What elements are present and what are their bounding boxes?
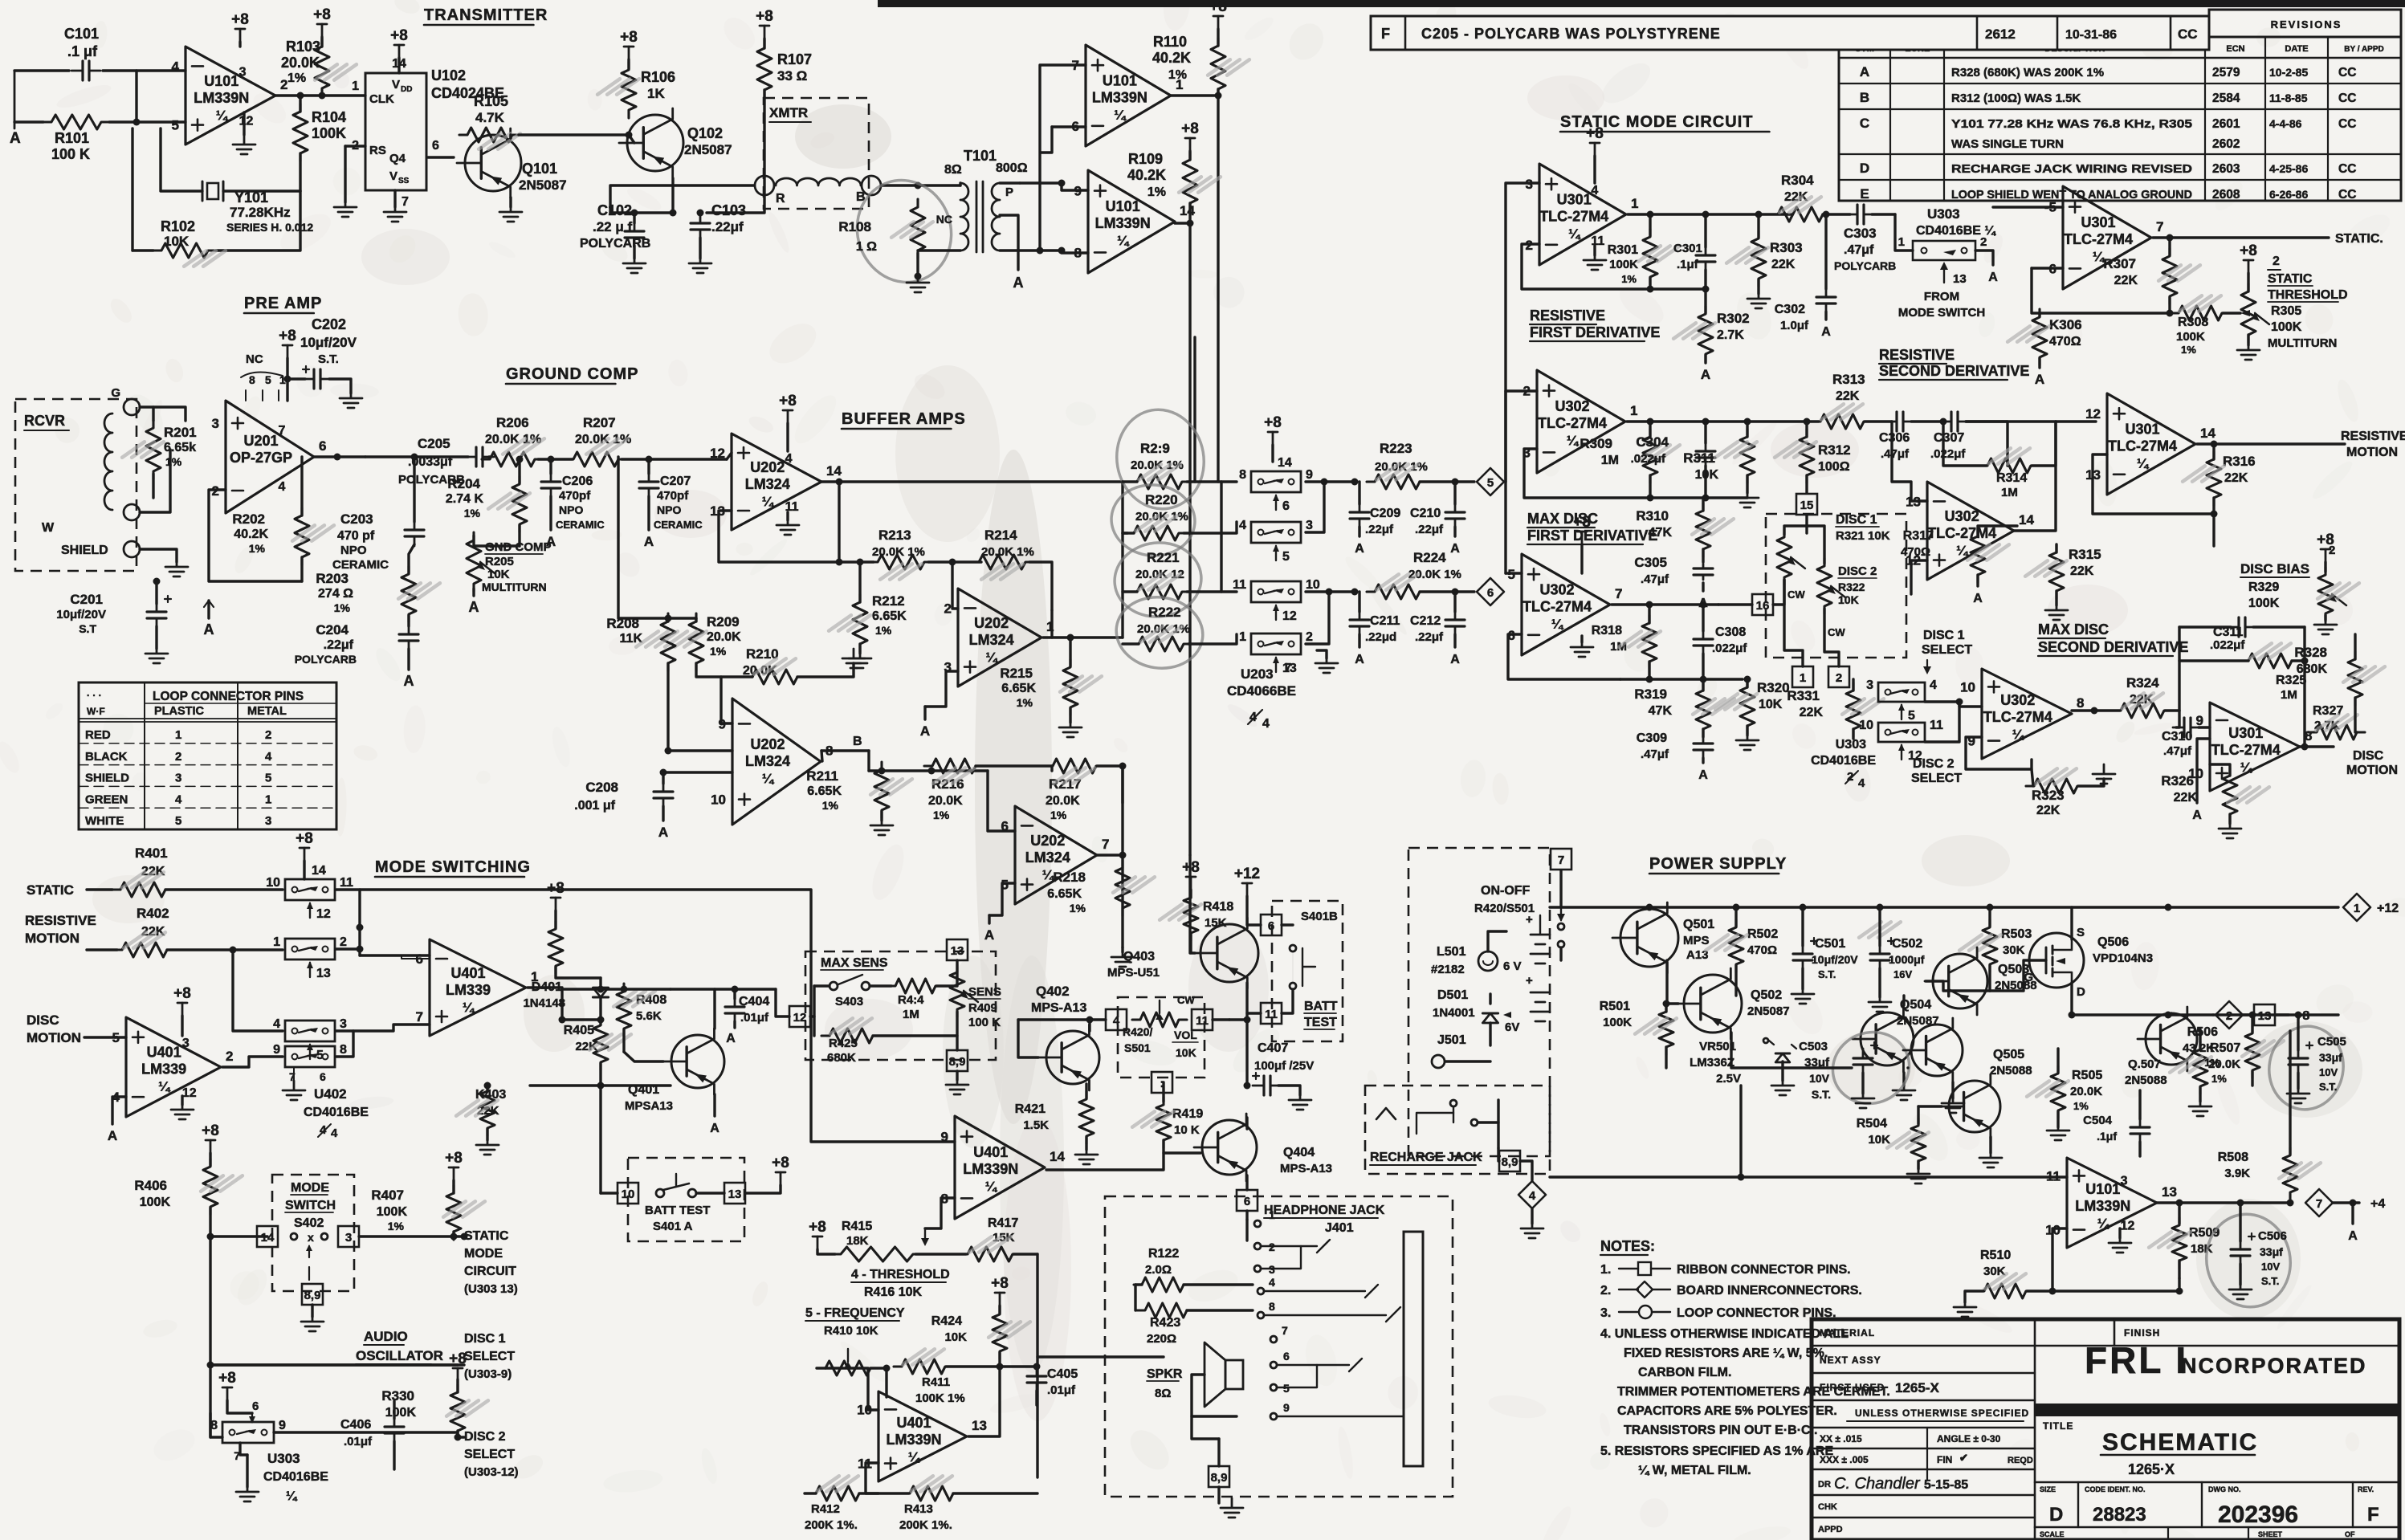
svg-text:R101: R101 [55, 130, 89, 146]
loop coil xmtr [776, 178, 861, 185]
analog ground Q401 [713, 1094, 715, 1116]
analog switch S402-3 [285, 1021, 335, 1041]
wire [1040, 65, 1086, 251]
svg-text:CHK: CHK [1818, 1502, 1837, 1512]
svg-text:2608: 2608 [2212, 188, 2240, 202]
resistor R310 [1696, 503, 1710, 557]
wire vertical bus2 [1220, 482, 1222, 592]
svg-text:S.T.: S.T. [318, 352, 339, 366]
svg-text:.22μf: .22μf [1415, 630, 1444, 644]
capacitor C404 [734, 997, 736, 1023]
wire U301a out [1628, 213, 1792, 215]
svg-text:CERAMIC: CERAMIC [332, 558, 389, 572]
resistor R101 [43, 115, 109, 129]
svg-text:C209: C209 [1370, 507, 1400, 520]
svg-text:3: 3 [345, 1231, 352, 1245]
svg-text:3: 3 [265, 814, 271, 828]
svg-text:TRANSISTORS PIN OUT E·B·C .: TRANSISTORS PIN OUT E·B·C . [1624, 1424, 1818, 1437]
capacitor C209 [1359, 503, 1361, 528]
svg-text:A: A [546, 534, 556, 549]
svg-text:R201: R201 [164, 425, 197, 440]
svg-text:R2:9: R2:9 [1140, 441, 1170, 456]
speaker SPKR [1225, 1360, 1243, 1389]
svg-text:10: 10 [1306, 578, 1320, 592]
svg-text:MOTION: MOTION [2346, 764, 2398, 777]
svg-text:BLACK: BLACK [85, 750, 128, 764]
pot R416 wiper [924, 1228, 926, 1243]
jack contact 4 [1258, 1288, 1264, 1294]
title block [1812, 1319, 2399, 1540]
svg-text:12: 12 [2121, 1220, 2135, 1233]
svg-text:APPD: APPD [1818, 1525, 1843, 1534]
svg-text:+8: +8 [772, 1155, 789, 1171]
svg-text:(U303-9): (U303-9) [464, 1367, 512, 1381]
svg-text:R202: R202 [232, 511, 265, 527]
svg-text:6: 6 [1001, 818, 1009, 833]
svg-text:R211: R211 [806, 768, 838, 784]
wire bus B [821, 749, 869, 752]
wire [1306, 590, 1329, 593]
svg-text:C101: C101 [64, 26, 99, 42]
capacitor C211 [1359, 610, 1361, 636]
svg-text:1265·X: 1265·X [2128, 1461, 2175, 1477]
wire [1731, 1033, 1810, 1068]
wire preamp out [314, 455, 365, 458]
svg-text:7: 7 [1102, 837, 1109, 852]
wire U401b out [528, 988, 562, 1020]
power +8 R407 [453, 1167, 455, 1180]
svg-text:R221: R221 [1147, 550, 1180, 565]
wire [1018, 1018, 1092, 1021]
svg-text:R328: R328 [2294, 645, 2327, 660]
svg-text:R122: R122 [1148, 1247, 1179, 1261]
svg-text:470 pf: 470 pf [337, 529, 375, 543]
svg-text:S.T: S.T [79, 622, 96, 635]
svg-text:R410 10K: R410 10K [824, 1324, 878, 1338]
svg-text:.22μf: .22μf [1365, 523, 1394, 536]
ground C502 [1869, 992, 1891, 1012]
wire [103, 69, 185, 71]
dashed box BATT TEST S401A [628, 1158, 744, 1241]
resistor R425 [821, 1029, 881, 1043]
power +8 R106 [628, 47, 630, 59]
wire [1037, 1355, 1164, 1358]
jack contact 9 [1270, 1413, 1277, 1420]
recharge contacts [1417, 1113, 1453, 1134]
svg-text:K306: K306 [2049, 317, 2082, 332]
wire [2052, 1228, 2179, 1291]
svg-text:R321 10K: R321 10K [1836, 529, 1890, 543]
resistor R421 [1079, 1091, 1094, 1144]
svg-text:10K: 10K [487, 568, 510, 581]
svg-text:R215: R215 [1000, 666, 1033, 681]
svg-text:BOARD INNERCONNECTORS.: BOARD INNERCONNECTORS. [1677, 1284, 1862, 1298]
svg-text:10K: 10K [1868, 1133, 1890, 1147]
wire [222, 1057, 283, 1067]
jack contact 3 [1254, 1265, 1261, 1272]
svg-text:REVISIONS: REVISIONS [2271, 18, 2342, 31]
transistor Q502 [1684, 975, 1742, 1033]
ground R218 [1121, 947, 1123, 952]
wire [713, 989, 715, 1029]
capacitor C201 [156, 602, 158, 628]
wire [562, 988, 671, 990]
svg-text:.47μf: .47μf [2163, 744, 2192, 758]
capacitor C311 [2228, 626, 2256, 629]
svg-text:A: A [1355, 542, 1364, 556]
wire [210, 1365, 222, 1437]
svg-text:Q402: Q402 [1036, 984, 1070, 999]
svg-text:LM339N: LM339N [1092, 89, 1147, 105]
svg-text:R413: R413 [904, 1502, 933, 1516]
svg-text:FIRST USED: FIRST USED [1820, 1382, 1885, 1393]
switch S403 [830, 982, 838, 990]
svg-text:1M: 1M [2281, 688, 2297, 702]
svg-text:BUFFER AMPS: BUFFER AMPS [842, 410, 966, 428]
svg-text:+8: +8 [231, 11, 249, 28]
svg-text:+8: +8 [809, 1219, 826, 1236]
svg-text:C307: C307 [1934, 431, 1964, 445]
svg-text:13: 13 [2162, 1184, 2177, 1200]
svg-text:1%: 1% [1621, 273, 1637, 285]
svg-text:TLC-27M4: TLC-27M4 [2211, 742, 2281, 758]
svg-text:R504: R504 [1857, 1117, 1887, 1131]
wire [1306, 480, 1324, 483]
power +8 R415 [817, 1236, 819, 1249]
svg-text:100K: 100K [377, 1205, 408, 1219]
svg-text:R419: R419 [1172, 1107, 1203, 1121]
svg-text:1: 1 [273, 935, 280, 949]
square colon connector [1152, 1072, 1172, 1093]
svg-text:RED: RED [85, 728, 111, 742]
svg-text:S401 A: S401 A [653, 1220, 693, 1233]
svg-text:C201: C201 [70, 592, 103, 607]
svg-text:8: 8 [1269, 1300, 1275, 1313]
svg-text:+12: +12 [2377, 902, 2399, 915]
svg-text:40.2K: 40.2K [1127, 167, 1166, 183]
board connector 1 +12 [2343, 894, 2370, 921]
wire [989, 883, 1015, 915]
wire mode to threshold comparator [360, 890, 955, 1142]
svg-text:U301: U301 [1557, 191, 1592, 207]
op-amp U201 [226, 401, 314, 513]
capacitor C309 [1702, 734, 1705, 760]
svg-text:T101: T101 [964, 148, 997, 164]
capacitor C208 [662, 782, 665, 808]
resistor R217 [1045, 759, 1104, 773]
svg-text:FROM: FROM [1924, 290, 1959, 304]
resistor R418 [1184, 890, 1198, 941]
resistor R107 [757, 40, 772, 98]
resistor R302 [1698, 306, 1713, 362]
svg-text:A: A [469, 599, 479, 615]
svg-text:DISC 1: DISC 1 [464, 1332, 506, 1346]
wire [1306, 482, 1324, 532]
svg-text:1%: 1% [2204, 1057, 2220, 1069]
dashed box VOL R420 [1118, 997, 1205, 1078]
switch on-off [1560, 907, 1562, 920]
op-amp U202 section D [732, 699, 821, 825]
svg-text:1: 1 [265, 792, 271, 806]
svg-text:1: 1 [175, 728, 181, 742]
svg-text:BATT: BATT [1304, 1000, 1338, 1013]
power +8 U102 [398, 45, 401, 58]
svg-text:SELECT: SELECT [1911, 772, 1962, 785]
svg-text:+8: +8 [1209, 0, 1227, 15]
svg-text:R110: R110 [1153, 34, 1187, 50]
svg-text:U101: U101 [2085, 1181, 2120, 1197]
battery cell 1 [1531, 935, 1550, 964]
svg-text:5: 5 [172, 118, 179, 133]
ground C501 [1792, 984, 1814, 1004]
svg-text:R503: R503 [2001, 927, 2032, 941]
svg-text:C208: C208 [585, 780, 618, 795]
svg-text:DISC 2: DISC 2 [464, 1430, 506, 1444]
ground hp [1221, 1498, 1243, 1518]
svg-text:ON-OFF: ON-OFF [1481, 884, 1531, 898]
svg-text:R310: R310 [1636, 508, 1669, 524]
svg-text:A: A [1698, 768, 1708, 782]
ground R108 [907, 273, 929, 292]
transistor Q402 [1046, 1031, 1099, 1084]
wire [1892, 422, 1927, 501]
svg-text:ANGLE ± 0-30: ANGLE ± 0-30 [1937, 1433, 2001, 1444]
svg-text:MOTION: MOTION [26, 1030, 81, 1045]
ground C103 [699, 238, 701, 259]
svg-text:10: 10 [622, 1188, 635, 1201]
svg-text:8,9: 8,9 [1211, 1471, 1228, 1485]
resistor R315 [2049, 544, 2064, 599]
svg-text:1000μf: 1000μf [1889, 953, 1925, 966]
svg-text:18K: 18K [846, 1234, 869, 1248]
capacitor C505 [2263, 1021, 2350, 1115]
svg-text:¼: ¼ [985, 1179, 998, 1194]
svg-text:A: A [108, 1128, 117, 1143]
wire [1192, 1416, 1219, 1439]
svg-text:6: 6 [1282, 499, 1290, 513]
svg-text:¼: ¼ [1956, 543, 1969, 558]
power +8 U101 [239, 29, 242, 42]
power +8 U302c [1581, 532, 1584, 544]
svg-text:100 K: 100 K [51, 146, 90, 162]
svg-text:CD4016BE: CD4016BE [263, 1470, 328, 1484]
svg-text:20.0K: 20.0K [707, 630, 741, 644]
switch S401B [1290, 945, 1296, 951]
svg-text:6.65K: 6.65K [872, 609, 907, 623]
svg-text:4: 4 [1858, 776, 1865, 790]
svg-text:3: 3 [340, 1017, 347, 1031]
svg-text:1%: 1% [334, 601, 351, 614]
svg-text:R223: R223 [1380, 441, 1412, 456]
svg-text:7: 7 [2156, 219, 2163, 234]
resistor R331 [1846, 682, 1861, 737]
svg-text:LM339N: LM339N [2075, 1198, 2130, 1214]
svg-text:4-25-86: 4-25-86 [2269, 162, 2308, 175]
resistor R402 [114, 943, 175, 957]
capacitor C501 [1802, 944, 1804, 970]
svg-text:NPO: NPO [657, 503, 681, 516]
ground U302c [1580, 636, 1583, 642]
svg-text:LM339N: LM339N [194, 90, 249, 106]
svg-text:PRE AMP: PRE AMP [244, 295, 322, 312]
svg-text:1%: 1% [1050, 809, 1067, 821]
svg-text:TLC-27M4: TLC-27M4 [2064, 231, 2133, 247]
svg-text:10: 10 [1859, 719, 1873, 732]
svg-text:OSCILLATOR: OSCILLATOR [356, 1348, 443, 1363]
svg-text:.1μf: .1μf [1677, 258, 1699, 271]
svg-text:4: 4 [1262, 717, 1270, 731]
svg-text:CD4066BE: CD4066BE [1227, 683, 1296, 699]
wire [2178, 1278, 2180, 1291]
svg-text:202396: 202396 [2218, 1501, 2298, 1528]
svg-text:A: A [404, 673, 414, 689]
svg-text:40.2K: 40.2K [1152, 50, 1191, 66]
terminal B [862, 176, 881, 195]
analog switch U203 B [1251, 522, 1301, 543]
svg-text:R205: R205 [485, 555, 514, 568]
svg-text:MODE: MODE [291, 1181, 329, 1195]
svg-text:+8: +8 [313, 6, 331, 23]
svg-text:10K: 10K [164, 234, 190, 249]
svg-text:Q502: Q502 [1751, 988, 1782, 1002]
svg-text:C211: C211 [1370, 614, 1400, 628]
svg-text:(U303 13): (U303 13) [464, 1282, 518, 1296]
wire [233, 950, 283, 1031]
resistor R206 zig [482, 452, 543, 466]
svg-text:47K: 47K [1649, 704, 1673, 718]
svg-text:4: 4 [331, 1126, 338, 1140]
svg-text:¼: ¼ [2097, 1216, 2110, 1231]
svg-text:2584: 2584 [2212, 92, 2240, 105]
wire [727, 453, 732, 459]
wire [1506, 183, 1539, 482]
svg-text:DISC 2: DISC 2 [1838, 564, 1877, 578]
svg-text:U202: U202 [1030, 833, 1065, 849]
svg-text:NPO: NPO [340, 544, 367, 557]
ribbon connector 13 [724, 1183, 745, 1204]
svg-text:.022μf: .022μf [1631, 452, 1666, 466]
svg-text:CIRCUIT: CIRCUIT [464, 1265, 516, 1278]
ground U101d [2118, 1228, 2121, 1238]
svg-text:.022μf: .022μf [2210, 638, 2245, 652]
resistor R201 [146, 420, 161, 479]
svg-text:RESISTIVE: RESISTIVE [1530, 308, 1605, 324]
resistor R309 [1643, 429, 1657, 483]
svg-text:REV.: REV. [2358, 1485, 2374, 1493]
svg-text:R109: R109 [1128, 151, 1163, 167]
dashed box recharge jack [1365, 1086, 1550, 1174]
svg-text:1%: 1% [875, 624, 892, 637]
svg-text:8: 8 [249, 373, 255, 386]
wire [671, 988, 776, 990]
svg-text:2.0Ω: 2.0Ω [1145, 1263, 1172, 1277]
resistor R214 [971, 555, 1033, 569]
svg-text:8: 8 [340, 1043, 347, 1057]
dashed box RCVR [15, 399, 137, 571]
resistor R505 [2051, 1065, 2065, 1118]
resistor R327 [2309, 725, 2365, 739]
svg-text:CARBON FILM.: CARBON FILM. [1638, 1366, 1731, 1379]
power +8 U401a [181, 1003, 184, 1016]
svg-text:C506: C506 [2258, 1229, 2287, 1243]
analog ground +4 [2351, 1203, 2354, 1224]
svg-text:100K: 100K [140, 1196, 171, 1209]
svg-text:D: D [2049, 1504, 2063, 1526]
svg-text:10 K: 10 K [1174, 1123, 1200, 1137]
dashed box DISC pots [1766, 514, 1906, 658]
resistor R414 [887, 979, 944, 993]
svg-text:7: 7 [416, 1009, 423, 1025]
svg-text:Q505: Q505 [1993, 1048, 2024, 1061]
svg-text:4: 4 [785, 452, 793, 466]
svg-text:1M: 1M [2001, 486, 2018, 499]
power +8 S402-1 [304, 848, 306, 861]
ground R507 [2189, 1097, 2211, 1116]
svg-text:FIRST DERIVATIVE: FIRST DERIVATIVE [1527, 528, 1657, 544]
resistor R106 [622, 62, 636, 118]
svg-text:DR: DR [1818, 1480, 1831, 1489]
svg-text:11-8-85: 11-8-85 [2269, 92, 2308, 104]
wire center tap [1121, 482, 1123, 638]
svg-text:P: P [1005, 185, 1013, 199]
svg-text:4: 4 [1529, 1189, 1536, 1203]
svg-text:MULTITURN: MULTITURN [2268, 336, 2337, 350]
svg-text:+8: +8 [1264, 414, 1282, 431]
wire [428, 156, 454, 158]
svg-text:5: 5 [1908, 709, 1915, 723]
resistor R208 [661, 613, 675, 671]
svg-text:A: A [2192, 809, 2202, 822]
svg-text:C304: C304 [1636, 434, 1669, 450]
wire [925, 1198, 955, 1228]
wire RESISTIVE MOTION out [2197, 442, 2345, 445]
analog switch S402-4 [285, 1046, 335, 1067]
op-amp U302 section B [1927, 482, 2014, 580]
capacitor C302 [1825, 287, 1828, 313]
svg-text:DD: DD [401, 85, 412, 94]
svg-text:+8: +8 [445, 1150, 463, 1167]
svg-text:R502: R502 [1747, 927, 1778, 941]
ground Q101 [509, 198, 512, 207]
svg-text:U401: U401 [973, 1144, 1008, 1160]
svg-text:6 V: 6 V [1503, 959, 1522, 973]
svg-text:NPO: NPO [559, 503, 583, 516]
ribbon connector 7 batt [1551, 849, 1571, 870]
svg-text:14: 14 [312, 864, 326, 878]
svg-text:C103: C103 [711, 202, 746, 218]
svg-text:TLC-27M4: TLC-27M4 [1538, 415, 1607, 431]
svg-text:13: 13 [972, 1418, 987, 1433]
svg-text:R4:4: R4:4 [898, 993, 924, 1007]
svg-text:20.0K 1%: 20.0K 1% [981, 545, 1034, 559]
resistor R313 [1812, 414, 1872, 429]
wire [1306, 592, 1329, 644]
ribbon connector 14 [257, 1226, 278, 1247]
svg-text:U303: U303 [1927, 206, 1960, 222]
svg-text:22K: 22K [2070, 564, 2094, 578]
ground R303 [1747, 289, 1770, 308]
pot R305 STATIC THRESHOLD [2241, 283, 2256, 343]
battery cell 2 [1531, 992, 1550, 1021]
svg-text:LM339N: LM339N [963, 1161, 1018, 1177]
ground U101 [243, 112, 245, 135]
svg-text:4: 4 [1239, 519, 1246, 532]
svg-text:470pf: 470pf [559, 489, 591, 503]
wire [668, 749, 732, 752]
wire [140, 407, 185, 421]
wire [2032, 268, 2170, 313]
svg-text:20.0K: 20.0K [2070, 1085, 2102, 1098]
